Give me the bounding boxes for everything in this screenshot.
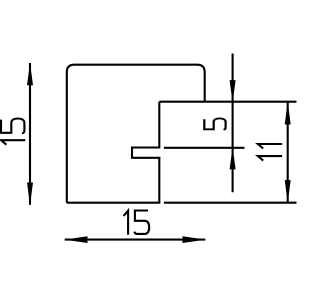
wire bottom edge of left piece [67, 202, 161, 204]
wire bottom edge of right arm (y=147.8) [164, 147, 245, 149]
arrowhead 15 bottom right [183, 236, 206, 243]
dimension line 5 vertical with outside arrows [232, 54, 234, 193]
label 11 (rotated) [258, 144, 282, 161]
dimension line 15 left vertical [29, 63, 31, 205]
arrowhead 15 bottom left [64, 236, 87, 243]
arrowhead 11 bottom (pointing down) [285, 180, 291, 203]
arrowhead 15 left top [27, 63, 33, 86]
label 5 (rotated) [204, 118, 225, 129]
arrowhead 15 left bottom [27, 183, 33, 206]
label 15 left (rotated) [1, 118, 25, 144]
wire bottom line right piece (y=202.7) [164, 202, 297, 204]
wire right edge of body lower part [158, 158, 160, 203]
dimension line 15 bottom horizontal [65, 239, 206, 241]
wire right edge of body with slot (upper part + slot top/left/bottom) [132, 102, 160, 158]
profile left piece outline (rounded top) [67, 65, 205, 203]
arrowhead 5 bottom (pointing up) [230, 147, 236, 170]
arrowhead 11 top (pointing up) [285, 102, 291, 125]
label 15 bottom [124, 211, 150, 235]
wire top edge of right arm (long horizontal y=101.7) [159, 101, 296, 103]
arrowhead 5 top (pointing down) [230, 80, 236, 103]
dimension line 11 vertical [287, 102, 289, 203]
